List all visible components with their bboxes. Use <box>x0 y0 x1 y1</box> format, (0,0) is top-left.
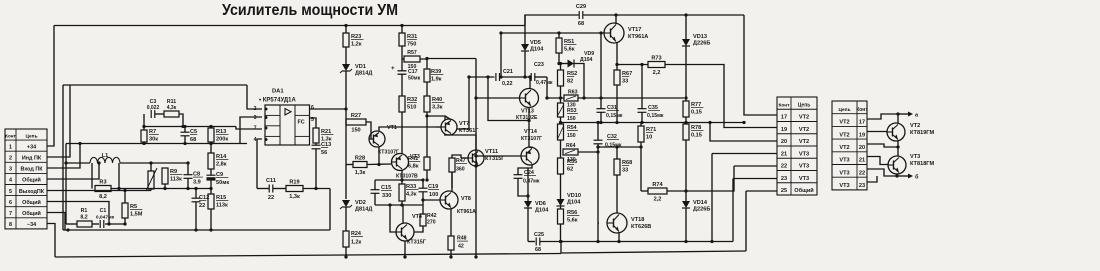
wire shield left <box>62 85 64 230</box>
svg-text:R53: R53 <box>567 108 577 114</box>
capacitor C9 electrolytic <box>207 172 230 186</box>
svg-text:50мк: 50мк <box>216 180 229 186</box>
svg-text:R5: R5 <box>130 204 137 210</box>
svg-text:С31: С31 <box>607 105 617 111</box>
wire R78 bottom <box>685 140 687 199</box>
wire VT18 base <box>598 222 599 224</box>
trimmer R17 <box>148 171 154 189</box>
wire y180 line <box>375 179 423 181</box>
resistor R52 <box>558 70 578 86</box>
wire bias bus <box>475 59 477 258</box>
svg-text:330: 330 <box>382 193 391 199</box>
svg-text:КТ3107В: КТ3107В <box>396 174 418 180</box>
svg-text:150: 150 <box>567 133 576 139</box>
wire VT8 base <box>423 199 440 201</box>
svg-text:130: 130 <box>567 103 576 109</box>
svg-text:3,9: 3,9 <box>193 180 201 186</box>
wire mid rail <box>561 122 745 124</box>
resistor R73 <box>648 56 665 77</box>
capacitor C29 <box>579 11 583 19</box>
wire R67 leads <box>616 65 618 71</box>
wire R24 bottom <box>345 247 347 257</box>
resistor R1 <box>77 221 92 227</box>
svg-text:R54: R54 <box>567 125 577 131</box>
wire R1-C1 <box>92 223 99 225</box>
wire top +34 rail <box>54 25 525 27</box>
wire R48 bottom <box>450 250 452 257</box>
junction VT13 <box>499 31 502 34</box>
wire VT4 top <box>402 205 404 223</box>
svg-text:21: 21 <box>859 158 865 164</box>
transistor VT17 <box>604 23 648 43</box>
svg-text:R55: R55 <box>567 159 577 165</box>
svg-text:113к: 113к <box>216 203 228 209</box>
svg-text:R73: R73 <box>651 56 661 62</box>
wire C21 riser <box>500 33 502 77</box>
svg-text:2,2: 2,2 <box>654 197 662 203</box>
svg-text:Общий: Общий <box>22 199 41 206</box>
svg-text:6: 6 <box>9 200 12 206</box>
svg-text:750: 750 <box>407 42 416 48</box>
svg-text:Цепь: Цепь <box>25 134 37 140</box>
svg-text:4: 4 <box>254 137 257 143</box>
resistor R71 <box>638 126 656 142</box>
svg-text:VT2: VT2 <box>839 145 849 151</box>
wire VT13 base feed <box>476 97 521 99</box>
wire C3 riser left <box>143 114 145 127</box>
wire pin7 feed <box>236 127 262 130</box>
svg-text:R14: R14 <box>216 154 227 160</box>
svg-text:Д104: Д104 <box>567 200 581 206</box>
wire trimmer top <box>150 163 152 171</box>
svg-text:С9: С9 <box>216 172 223 178</box>
svg-text:КТ961А: КТ961А <box>628 34 648 40</box>
wire bottom rail 240b <box>540 241 733 243</box>
wire row23 out <box>867 176 877 182</box>
wire y147 line <box>598 146 641 148</box>
svg-text:VT3: VT3 <box>839 170 849 176</box>
svg-text:2: 2 <box>9 156 12 162</box>
wire base line h <box>501 32 604 34</box>
resistor R33 <box>399 184 418 201</box>
junction feedback <box>314 187 317 190</box>
svg-text:+: + <box>391 65 395 72</box>
svg-text:VD13: VD13 <box>693 34 707 40</box>
svg-text:Инд ПК: Инд ПК <box>22 156 42 162</box>
junction VD9 line <box>557 62 560 65</box>
svg-text:R13: R13 <box>216 129 226 135</box>
svg-text:19: 19 <box>781 127 787 133</box>
wire VT2 collector line <box>867 114 896 119</box>
svg-text:VT2: VT2 <box>799 115 809 121</box>
wire R52 top <box>560 64 562 71</box>
svg-text:68: 68 <box>535 247 541 253</box>
capacitor C17 electrolytic <box>398 70 407 72</box>
svg-text:С32: С32 <box>607 134 617 140</box>
svg-text:R56: R56 <box>567 210 577 216</box>
svg-text:360: 360 <box>456 167 465 173</box>
wire row21 drop <box>711 154 713 242</box>
svg-text:Д104: Д104 <box>535 208 549 214</box>
transistor VT14 <box>521 147 539 165</box>
svg-text:R9: R9 <box>170 169 177 175</box>
svg-text:R51: R51 <box>564 39 574 45</box>
wire R68 bottom <box>616 175 618 213</box>
resistor R51 <box>556 38 576 53</box>
wire row17 feed <box>744 15 777 115</box>
wire R57 leads <box>402 58 404 60</box>
wire VD2 down <box>345 207 347 231</box>
svg-text:VT8: VT8 <box>461 196 471 202</box>
svg-text:1,3к: 1,3к <box>289 194 300 200</box>
resistor R55 <box>558 158 578 174</box>
wire row22 feed <box>734 165 777 167</box>
svg-text:R3: R3 <box>99 180 106 186</box>
svg-text:VT7: VT7 <box>459 121 469 127</box>
wire VT13 emitter <box>528 107 530 121</box>
svg-text:Вход ПК: Вход ПК <box>21 167 44 173</box>
wire VT2-VT3 <box>897 141 899 156</box>
wire VT7 base <box>436 126 441 128</box>
wire top rail right section <box>583 14 744 16</box>
transistor VT1 <box>369 131 385 147</box>
capacitor C12 <box>192 195 210 209</box>
svg-text:2,8к: 2,8к <box>216 162 227 168</box>
svg-text:Усилитель мощности УМ: Усилитель мощности УМ <box>222 2 398 19</box>
svg-text:R1: R1 <box>81 208 88 214</box>
svg-text:С8: С8 <box>193 172 200 178</box>
svg-text:R40: R40 <box>432 97 442 103</box>
wire VT3 emitter down <box>401 171 403 181</box>
svg-text:8,2: 8,2 <box>99 194 107 200</box>
wire bottom rail 240 <box>528 241 535 243</box>
svg-text:2,2: 2,2 <box>653 70 661 76</box>
svg-text:1,9к: 1,9к <box>431 77 442 83</box>
wire row25 drop <box>745 191 747 251</box>
wire VT1 collector up <box>379 127 436 132</box>
svg-text:33: 33 <box>622 168 628 174</box>
inductor L1 <box>90 153 120 163</box>
junction dots input <box>142 125 145 128</box>
svg-text:R42: R42 <box>427 213 437 219</box>
wire VT2 emitter <box>867 144 898 147</box>
svg-text:33: 33 <box>622 79 628 85</box>
svg-text:R39: R39 <box>431 69 441 75</box>
wire VT14 bottom <box>528 165 532 202</box>
wire R39-R40 <box>426 82 428 96</box>
wire pin3 input <box>47 144 80 169</box>
wire VD6 bottom <box>527 208 529 242</box>
wire row23 drop <box>732 179 734 242</box>
svg-text:4: 4 <box>9 178 12 184</box>
wire rail bridge <box>560 242 562 254</box>
svg-text:3: 3 <box>9 167 12 173</box>
resistor R40 <box>424 96 444 112</box>
capacitor C15 <box>371 190 380 194</box>
capacitor C3 <box>151 110 155 118</box>
wire VD1 col mid <box>345 122 347 199</box>
svg-text:62: 62 <box>567 167 573 173</box>
wire VT18 base col <box>597 147 599 242</box>
svg-text:VT3: VT3 <box>799 176 809 182</box>
junction VD5 <box>523 75 526 78</box>
svg-text:КТ315Г: КТ315Г <box>407 240 426 246</box>
wire VT17 emitter <box>616 42 618 65</box>
wire row21 feed <box>712 153 777 155</box>
wire VT13-VT14 <box>528 121 530 148</box>
svg-text:22: 22 <box>859 170 865 176</box>
wire R28 line <box>346 164 353 166</box>
svg-text:30к: 30к <box>149 137 158 143</box>
svg-text:КТ818ГМ: КТ818ГМ <box>910 161 934 167</box>
wire R5 bottom <box>124 218 126 224</box>
wire VT17 collector <box>615 15 617 24</box>
svg-text:R23: R23 <box>351 34 361 40</box>
svg-text:L1: L1 <box>102 153 109 159</box>
wire L1 right drop <box>118 163 120 189</box>
svg-text:• КР574УД1А: • КР574УД1А <box>259 98 296 104</box>
transistor VT13 <box>520 89 539 108</box>
transistor VT7 <box>441 119 479 135</box>
svg-text:VT3: VT3 <box>799 164 809 170</box>
wire C15 leads <box>374 180 376 190</box>
junction R52 col <box>557 31 560 34</box>
svg-text:С5: С5 <box>190 129 197 135</box>
svg-text:КТ961А: КТ961А <box>457 209 476 215</box>
svg-text:200к: 200к <box>216 137 228 143</box>
wire C3-R11 <box>155 113 164 115</box>
capacitor C13 <box>312 142 332 156</box>
wire pin5 feedback <box>47 190 125 192</box>
wire C11-R19 <box>273 188 286 190</box>
junction R23 rail <box>344 24 347 27</box>
capacitor C35 <box>638 109 647 113</box>
svg-text:VT14: VT14 <box>524 129 537 135</box>
wire VT14 base feed <box>476 155 522 157</box>
svg-text:2: 2 <box>254 106 257 112</box>
resistor R54 <box>558 124 564 140</box>
svg-text:R48: R48 <box>457 236 467 242</box>
wire L1 to R9 <box>120 162 188 164</box>
svg-text:R74: R74 <box>652 182 663 188</box>
svg-text:4,3к: 4,3к <box>167 105 177 111</box>
svg-text:С24: С24 <box>524 170 534 176</box>
svg-text:25: 25 <box>781 188 787 194</box>
svg-text:22: 22 <box>199 203 205 209</box>
svg-text:0,15мк: 0,15мк <box>606 113 623 119</box>
svg-text:Д814Д: Д814Д <box>355 207 372 213</box>
svg-text:22: 22 <box>781 164 787 170</box>
svg-text:VD10: VD10 <box>567 193 581 199</box>
svg-text:R7: R7 <box>149 129 156 135</box>
svg-text:R67: R67 <box>622 71 632 77</box>
svg-text:0,47мк: 0,47мк <box>523 179 540 185</box>
svg-text:R15: R15 <box>216 195 226 201</box>
svg-text:С11: С11 <box>266 178 276 184</box>
wire VD5 top <box>524 15 526 44</box>
wire input to pin3 <box>240 117 262 144</box>
wire VT7 top feed <box>427 116 445 120</box>
wire C5 leads <box>184 127 186 133</box>
wire R68 top <box>616 147 618 159</box>
diode VD5 <box>521 40 544 53</box>
svg-text:Д226Б: Д226Б <box>693 207 710 213</box>
svg-text:23: 23 <box>781 176 787 182</box>
svg-text:VT3: VT3 <box>910 154 920 160</box>
svg-text:21: 21 <box>781 151 787 157</box>
svg-text:R33: R33 <box>406 184 416 190</box>
wire VT7 emitter top <box>445 116 451 120</box>
resistor R78 <box>683 124 703 140</box>
wire C24 leads <box>518 168 528 175</box>
resistor R9 <box>162 168 182 184</box>
svg-text:VT2: VT2 <box>839 120 849 126</box>
resistor R21 <box>313 128 333 143</box>
wire R40 down <box>426 112 428 157</box>
wire R51 top <box>558 33 560 38</box>
capacitor C31 <box>597 109 606 113</box>
wire bottom rail 252 <box>561 251 746 253</box>
svg-text:R28: R28 <box>355 156 365 162</box>
svg-text:VD1: VD1 <box>355 64 366 70</box>
resistor R67 <box>614 70 632 85</box>
diode VD10 <box>557 193 582 206</box>
resistor R7 <box>141 129 159 143</box>
wire output b arrow <box>897 175 908 177</box>
wire VT1 emitter down <box>378 147 380 165</box>
resistor R32 <box>399 96 417 112</box>
svg-text:DA1: DA1 <box>272 89 284 95</box>
resistor R31 <box>399 33 417 48</box>
svg-text:5: 5 <box>9 189 12 195</box>
resistor R41 <box>408 156 430 170</box>
wire +34 from pin1 to top rail <box>47 26 54 147</box>
svg-text:68: 68 <box>190 137 196 143</box>
junction conn <box>708 121 711 124</box>
svg-text:+34: +34 <box>27 144 36 150</box>
svg-text:0,047мк: 0,047мк <box>96 215 115 221</box>
svg-text:4,3к: 4,3к <box>406 192 417 198</box>
svg-text:VT2: VT2 <box>910 123 920 129</box>
capacitor C24 <box>514 175 523 179</box>
wire VT13 emitter line <box>488 77 529 121</box>
svg-text:VT13: VT13 <box>521 109 534 115</box>
wire R52-R53 <box>560 86 562 103</box>
svg-text:FC: FC <box>298 120 305 126</box>
resistor R64 <box>563 149 578 155</box>
wire shield bottom <box>63 229 330 231</box>
junction VD6 <box>526 194 529 197</box>
svg-text:5,6к: 5,6к <box>567 218 578 224</box>
transistor VT4 <box>396 223 414 241</box>
resistor R27 <box>346 113 366 134</box>
wire R23-VD1 <box>345 47 347 64</box>
wire VD13 bottom <box>685 46 687 98</box>
svg-text:100: 100 <box>429 192 438 198</box>
transistor VT18 <box>607 213 651 233</box>
wire VT2 base <box>867 131 887 133</box>
svg-text:7: 7 <box>9 211 12 217</box>
wire VT11 top <box>475 135 477 150</box>
wire R33 leads <box>401 180 403 184</box>
wire pin7 <box>47 213 65 231</box>
wire pin8 -34 <box>47 224 55 258</box>
wire C23 right <box>535 76 547 78</box>
svg-text:−34: −34 <box>27 222 36 228</box>
svg-text:113к: 113к <box>170 177 182 183</box>
junction y180 <box>400 178 403 181</box>
svg-text:3,3к: 3,3к <box>432 105 443 111</box>
wire R74 feed <box>640 147 642 191</box>
wire C13 down <box>315 149 317 189</box>
svg-text:6,8к: 6,8к <box>408 164 419 170</box>
wire VD5 bottom <box>524 51 526 77</box>
wire R14 top <box>210 144 212 154</box>
svg-text:Д226Б: Д226Б <box>693 41 710 47</box>
wire C23 riser <box>546 77 548 98</box>
wire input line <box>66 143 247 145</box>
svg-text:КТ626В: КТ626В <box>631 224 651 230</box>
svg-text:5,6к: 5,6к <box>564 47 575 53</box>
svg-text:КТ3107Г: КТ3107Г <box>521 136 542 142</box>
svg-text:VT3: VT3 <box>799 151 809 157</box>
resistor R48 <box>448 236 454 250</box>
transistor VT11 <box>468 149 505 166</box>
svg-text:R24: R24 <box>351 231 361 237</box>
resistor R23 <box>343 33 363 48</box>
svg-text:КТ819ГМ: КТ819ГМ <box>910 130 934 136</box>
svg-text:С15: С15 <box>381 185 391 191</box>
wire VT7 collector right <box>457 77 469 129</box>
svg-text:1,2к: 1,2к <box>351 240 361 246</box>
resistor R11 <box>164 111 179 117</box>
resistor R47 <box>449 158 455 172</box>
wire R21-C13 <box>315 143 317 145</box>
diode VD14 <box>682 200 710 213</box>
wire C32 leads <box>597 123 599 141</box>
resistor R24 <box>343 231 349 247</box>
svg-text:0,15мк: 0,15мк <box>647 113 664 119</box>
wire shield to pin2 <box>247 85 262 109</box>
resistor R19 <box>286 180 303 201</box>
resistor R53 <box>558 103 564 117</box>
transistor VT3 output <box>888 154 934 174</box>
svg-text:VT3: VT3 <box>839 158 849 164</box>
svg-text:С17: С17 <box>408 69 418 75</box>
wire R54 down <box>560 140 562 158</box>
svg-text:1,2к: 1,2к <box>351 42 362 48</box>
resistor R15 <box>208 194 228 209</box>
resistor R5 <box>122 203 143 218</box>
capacitor C21 <box>496 73 500 81</box>
resistor R74 <box>648 182 667 203</box>
diode VD6 <box>524 201 549 214</box>
wire C21 line left <box>469 76 495 78</box>
capacitor C8 <box>184 172 203 186</box>
wire C35 bottom <box>641 112 643 122</box>
svg-text:R71: R71 <box>646 127 656 133</box>
wire R28 to VT3 <box>367 163 392 166</box>
svg-text:VD5: VD5 <box>530 40 541 46</box>
svg-text:Д104: Д104 <box>530 47 544 53</box>
wire R41 bottom <box>426 170 428 180</box>
junction y97 <box>684 96 687 99</box>
resistor R57 <box>404 56 420 62</box>
wire pin2 to shield line <box>47 85 70 157</box>
wire C11 line <box>257 188 269 190</box>
resistor R56 <box>558 209 580 224</box>
svg-text:R21: R21 <box>321 129 331 135</box>
